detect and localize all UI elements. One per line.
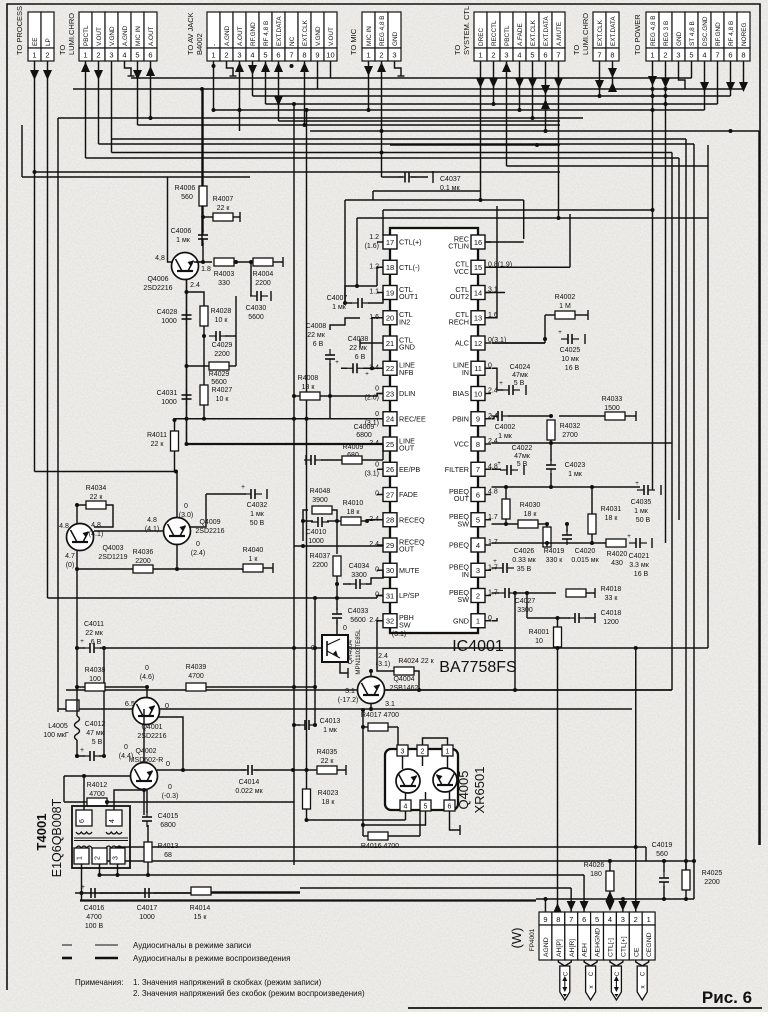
svg-text:R4010: R4010 [343, 500, 364, 507]
svg-text:2200: 2200 [704, 879, 720, 886]
svg-text:100: 100 [89, 676, 101, 683]
svg-text:4: 4 [122, 51, 126, 60]
svg-text:AH[R]: AH[R] [569, 939, 576, 957]
svg-text:TO POWER: TO POWER [633, 14, 642, 55]
svg-text:Рис. 6: Рис. 6 [702, 988, 752, 1007]
svg-text:430: 430 [611, 560, 623, 567]
svg-text:22 к: 22 к [151, 441, 165, 448]
svg-text:REG 4,8 B: REG 4,8 B [650, 15, 657, 46]
svg-text:CEGND: CEGND [646, 932, 653, 957]
svg-text:8: 8 [610, 51, 614, 60]
svg-text:4.8: 4.8 [147, 517, 157, 524]
svg-text:C4008: C4008 [306, 323, 327, 330]
svg-text:OUT: OUT [399, 444, 415, 453]
svg-text:R4026: R4026 [584, 862, 605, 869]
svg-text:0: 0 [184, 503, 188, 510]
svg-text:4700: 4700 [89, 791, 105, 798]
svg-text:4: 4 [250, 51, 254, 60]
svg-text:OUT1: OUT1 [399, 292, 418, 301]
svg-text:PBEQ: PBEQ [449, 541, 469, 550]
svg-text:0: 0 [165, 701, 169, 710]
svg-text:47 мк: 47 мк [86, 730, 105, 737]
svg-text:1: 1 [478, 51, 482, 60]
svg-text:RECEQ: RECEQ [399, 515, 425, 524]
svg-text:A.MUTE: A.MUTE [556, 22, 563, 46]
svg-text:2200: 2200 [255, 280, 271, 287]
svg-text:3300: 3300 [351, 572, 367, 579]
svg-text:2: 2 [634, 915, 638, 924]
svg-text:C4010: C4010 [306, 529, 327, 536]
svg-text:(3.1): (3.1) [365, 470, 379, 477]
svg-text:DLIN: DLIN [399, 389, 415, 398]
svg-text:EXT.DATA: EXT.DATA [276, 16, 283, 46]
svg-text:7: 7 [715, 51, 719, 60]
svg-text:0: 0 [145, 665, 149, 672]
svg-text:31: 31 [386, 591, 394, 600]
svg-text:0: 0 [375, 386, 379, 393]
svg-text:330: 330 [218, 280, 230, 287]
svg-text:R4029: R4029 [209, 371, 230, 378]
svg-text:23: 23 [386, 389, 394, 398]
svg-text:MIC IN: MIC IN [366, 26, 373, 46]
svg-text:100 мкГ: 100 мкГ [43, 732, 68, 739]
svg-text:C4030: C4030 [246, 305, 267, 312]
svg-text:A.GND: A.GND [224, 25, 231, 46]
svg-text:T4001: T4001 [34, 814, 49, 851]
svg-text:1000: 1000 [308, 538, 324, 545]
svg-text:Аудиосигналы в режиме воспроиз: Аудиосигналы в режиме воспроизведения [133, 954, 290, 963]
svg-text:1 мк: 1 мк [176, 237, 191, 244]
svg-text:4: 4 [404, 804, 408, 811]
svg-text:RECH: RECH [449, 317, 469, 326]
svg-text:+: + [365, 370, 369, 377]
svg-text:560: 560 [181, 194, 193, 201]
svg-text:0.1 мк: 0.1 мк [440, 185, 460, 192]
svg-text:(4.1): (4.1) [145, 526, 159, 533]
svg-text:24: 24 [386, 415, 394, 424]
svg-text:CTL[+]: CTL[+] [620, 936, 627, 957]
svg-text:1: 1 [650, 51, 654, 60]
svg-text:9: 9 [315, 51, 319, 60]
svg-text:6800: 6800 [160, 822, 176, 829]
svg-text:5 B: 5 B [517, 461, 528, 468]
svg-text:8: 8 [302, 51, 306, 60]
svg-text:TO AV JACK: TO AV JACK [186, 12, 195, 55]
svg-text:XR6501: XR6501 [472, 767, 487, 814]
svg-text:Q4002: Q4002 [135, 748, 156, 755]
svg-text:(W): (W) [509, 928, 524, 949]
svg-text:2: 2 [491, 51, 495, 60]
svg-text:1. Значения напряжений в скобк: 1. Значения напряжений в скобках (режим … [133, 978, 322, 987]
svg-text:REC/EE: REC/EE [399, 414, 426, 423]
svg-text:R4013: R4013 [158, 843, 179, 850]
svg-text:TO: TO [572, 45, 581, 55]
svg-text:+: + [241, 484, 245, 491]
svg-text:R4034: R4034 [86, 485, 107, 492]
svg-text:8: 8 [556, 915, 560, 924]
svg-text:20: 20 [386, 314, 394, 323]
svg-text:22 мк: 22 мк [307, 332, 326, 339]
svg-text:GND: GND [676, 31, 683, 46]
svg-text:3: 3 [676, 51, 680, 60]
svg-text:SW: SW [399, 620, 411, 629]
svg-text:C4025: C4025 [560, 347, 581, 354]
svg-text:EXT.DATA: EXT.DATA [610, 16, 617, 46]
svg-text:LP/SP: LP/SP [399, 591, 420, 600]
svg-text:19: 19 [386, 288, 394, 297]
svg-text:R4003: R4003 [214, 271, 235, 278]
svg-text:5 B: 5 B [92, 739, 103, 746]
svg-text:R4040: R4040 [243, 547, 264, 554]
svg-text:C4026: C4026 [514, 548, 535, 555]
svg-text:R4002: R4002 [555, 294, 576, 301]
svg-text:C4020: C4020 [575, 548, 596, 555]
svg-text:CTL[-]: CTL[-] [607, 938, 614, 957]
svg-text:C4011: C4011 [84, 621, 104, 628]
svg-text:1.8: 1.8 [201, 266, 211, 273]
svg-text:2SD2216: 2SD2216 [195, 528, 224, 535]
svg-text:R4001: R4001 [529, 629, 550, 636]
svg-text:+: + [80, 747, 84, 754]
svg-text:R4014: R4014 [190, 905, 211, 912]
svg-text:22 мк: 22 мк [85, 630, 104, 637]
svg-text:EXT.DATA: EXT.DATA [543, 16, 550, 46]
svg-text:EXT.CLK: EXT.CLK [597, 19, 604, 46]
svg-text:2SD2216: 2SD2216 [143, 285, 172, 292]
svg-text:+: + [558, 329, 562, 336]
svg-text:PBIN: PBIN [452, 414, 469, 423]
svg-text:CTLIN: CTLIN [448, 242, 469, 251]
svg-text:4700: 4700 [188, 673, 204, 680]
svg-text:3: 3 [476, 566, 480, 575]
svg-text:5: 5 [476, 516, 480, 525]
svg-text:(3.1): (3.1) [376, 661, 390, 668]
svg-text:0: 0 [166, 759, 170, 768]
svg-text:22 к: 22 к [217, 205, 231, 212]
svg-text:VCC: VCC [454, 440, 469, 449]
svg-text:9: 9 [476, 415, 480, 424]
svg-text:DREC: DREC [478, 28, 485, 46]
svg-text:R4017 4700: R4017 4700 [361, 712, 399, 719]
svg-text:+: + [497, 460, 501, 467]
svg-text:RF 4,8 B: RF 4,8 B [263, 21, 270, 46]
svg-text:13: 13 [474, 314, 482, 323]
svg-text:R4023: R4023 [318, 790, 339, 797]
svg-text:OUT: OUT [399, 545, 415, 554]
svg-text:(4.4): (4.4) [119, 753, 133, 760]
svg-text:C4033: C4033 [348, 608, 369, 615]
svg-text:FP4001: FP4001 [529, 928, 536, 951]
svg-text:A.OUT: A.OUT [148, 26, 155, 46]
svg-text:Q4009: Q4009 [199, 519, 220, 526]
svg-text:5600: 5600 [248, 314, 264, 321]
svg-text:22 к: 22 к [321, 758, 335, 765]
svg-text:C4016: C4016 [84, 905, 105, 912]
svg-text:2. Значения напряжений без ско: 2. Значения напряжений без скобок (режим… [133, 989, 365, 998]
svg-text:22 к: 22 к [90, 494, 104, 501]
svg-text:180: 180 [590, 871, 602, 878]
svg-text:R4006: R4006 [175, 185, 196, 192]
svg-text:SW: SW [457, 519, 469, 528]
svg-text:18 к: 18 к [524, 511, 538, 518]
svg-text:C: C [641, 971, 647, 976]
svg-text:27: 27 [386, 490, 394, 499]
svg-text:4: 4 [476, 541, 480, 550]
svg-text:RF 4,8 B: RF 4,8 B [728, 21, 735, 46]
svg-text:LP: LP [45, 38, 52, 46]
svg-text:12: 12 [474, 339, 482, 348]
svg-text:4.8: 4.8 [59, 523, 69, 530]
svg-text:A.FADE: A.FADE [517, 23, 524, 46]
svg-text:RECCTL: RECCTL [491, 20, 498, 46]
svg-text:0: 0 [168, 784, 172, 791]
svg-text:7: 7 [569, 915, 573, 924]
svg-text:IN2: IN2 [399, 317, 410, 326]
svg-text:R4031: R4031 [601, 506, 622, 513]
svg-text:-: - [211, 44, 218, 46]
svg-text:C4014: C4014 [239, 779, 260, 786]
svg-text:MIC IN: MIC IN [135, 26, 142, 46]
svg-text:5 B: 5 B [514, 380, 525, 387]
svg-text:C4012: C4012 [85, 721, 106, 728]
svg-text:5600: 5600 [211, 379, 227, 386]
svg-text:3: 3 [109, 51, 113, 60]
svg-text:C: C [589, 971, 595, 976]
svg-text:18 к: 18 к [322, 799, 336, 806]
svg-text:25: 25 [386, 440, 394, 449]
svg-text:2: 2 [421, 749, 425, 756]
svg-text:R4048: R4048 [310, 488, 331, 495]
svg-text:L4005: L4005 [48, 723, 68, 730]
svg-text:6 B: 6 B [313, 341, 324, 348]
svg-text:C4027: C4027 [515, 598, 536, 605]
svg-text:1000: 1000 [161, 318, 177, 325]
svg-text:C4015: C4015 [158, 813, 179, 820]
svg-text:C: C [615, 971, 621, 976]
svg-text:QR4004: QR4004 [347, 640, 354, 665]
svg-text:C4009: C4009 [354, 424, 375, 431]
svg-text:R4011: R4011 [147, 432, 167, 439]
svg-text:(1.6): (1.6) [365, 243, 379, 250]
svg-text:REG 3 B: REG 3 B [663, 21, 670, 46]
svg-text:3: 3 [392, 51, 396, 60]
svg-text:AEHGND: AEHGND [595, 928, 602, 957]
svg-text:10: 10 [535, 638, 543, 645]
svg-text:Q4003: Q4003 [102, 545, 123, 552]
svg-text:2: 2 [45, 51, 49, 60]
svg-text:C4037: C4037 [440, 176, 461, 183]
svg-text:5: 5 [595, 915, 599, 924]
svg-text:R4025: R4025 [702, 870, 723, 877]
svg-text:22: 22 [386, 364, 394, 373]
svg-text:(3.1): (3.1) [392, 631, 406, 638]
svg-text:2: 2 [96, 51, 100, 60]
svg-text:C4022: C4022 [512, 445, 533, 452]
svg-text:E1Q6QB008T: E1Q6QB008T [50, 798, 64, 877]
svg-text:3: 3 [504, 51, 508, 60]
svg-text:C: C [563, 971, 569, 976]
svg-text:+: + [627, 533, 631, 540]
svg-text:IC4001: IC4001 [452, 638, 504, 655]
svg-text:2SD2216: 2SD2216 [137, 733, 166, 740]
svg-text:IN: IN [462, 570, 469, 579]
svg-text:4: 4 [608, 915, 612, 924]
svg-text:Аудиосигналы в режиме записи: Аудиосигналы в режиме записи [133, 941, 251, 950]
svg-text:1: 1 [446, 749, 450, 756]
svg-text:+: + [335, 359, 339, 366]
svg-text:0.015 мк: 0.015 мк [571, 557, 599, 564]
svg-text:1.2: 1.2 [369, 234, 379, 241]
svg-text:Q4005: Q4005 [456, 770, 471, 809]
svg-text:REG 4,8 B: REG 4,8 B [379, 15, 386, 46]
svg-text:4.7: 4.7 [65, 553, 75, 560]
svg-text:R4007: R4007 [213, 196, 234, 203]
svg-text:3: 3 [621, 915, 625, 924]
svg-text:7: 7 [556, 51, 560, 60]
svg-text:6: 6 [79, 819, 86, 823]
svg-text:35 B: 35 B [517, 566, 532, 573]
svg-text:1: 1 [211, 51, 215, 60]
svg-text:C4019: C4019 [652, 842, 673, 849]
svg-text:18 к: 18 к [302, 384, 316, 391]
svg-text:100 B: 100 B [85, 923, 104, 930]
svg-text:EXT.CLK: EXT.CLK [302, 19, 309, 46]
svg-text:5: 5 [689, 51, 693, 60]
svg-text:3: 3 [237, 51, 241, 60]
svg-text:EE: EE [32, 37, 39, 46]
svg-text:2: 2 [224, 51, 228, 60]
svg-text:2SD1219: 2SD1219 [98, 554, 127, 561]
svg-text:6: 6 [148, 51, 152, 60]
svg-text:V.OUT: V.OUT [96, 27, 103, 46]
svg-text:(3.0): (3.0) [179, 512, 193, 519]
svg-text:+: + [493, 558, 497, 565]
svg-text:2200: 2200 [312, 562, 328, 569]
svg-text:TO: TO [58, 45, 67, 55]
svg-text:10 к: 10 к [216, 396, 230, 403]
svg-text:5: 5 [530, 51, 534, 60]
svg-text:1: 1 [476, 617, 480, 626]
svg-text:IN: IN [462, 368, 469, 377]
svg-text:1: 1 [647, 915, 651, 924]
svg-text:1: 1 [77, 856, 84, 860]
svg-text:R4020: R4020 [607, 551, 628, 558]
svg-text:R4035: R4035 [317, 749, 338, 756]
svg-text:A.GND: A.GND [122, 25, 129, 46]
svg-text:6: 6 [582, 915, 586, 924]
svg-text:10: 10 [474, 389, 482, 398]
svg-text:6.5: 6.5 [125, 699, 135, 708]
svg-text:C4017: C4017 [137, 905, 158, 912]
svg-text:(2.4): (2.4) [191, 550, 205, 557]
svg-text:PBCTL: PBCTL [83, 25, 90, 46]
svg-text:FILTER: FILTER [445, 465, 469, 474]
svg-text:22 мк: 22 мк [349, 345, 368, 352]
svg-text:4: 4 [702, 51, 706, 60]
svg-text:16 B: 16 B [634, 571, 649, 578]
svg-text:17: 17 [386, 238, 394, 247]
svg-text:11: 11 [474, 364, 482, 373]
svg-text:ST 4,8 B: ST 4,8 B [689, 21, 696, 46]
svg-text:1 M: 1 M [559, 303, 571, 310]
svg-text:3: 3 [401, 749, 405, 756]
svg-text:7: 7 [289, 51, 293, 60]
svg-text:EE/PB: EE/PB [399, 465, 420, 474]
svg-text:C4032: C4032 [247, 502, 268, 509]
svg-text:R4032: R4032 [560, 423, 581, 430]
svg-text:C4002: C4002 [495, 424, 516, 431]
svg-text:6: 6 [476, 490, 480, 499]
svg-text:50 B: 50 B [250, 520, 265, 527]
svg-text:18 к: 18 к [605, 515, 619, 522]
svg-text:0: 0 [375, 411, 379, 418]
svg-text:15: 15 [474, 263, 482, 272]
svg-text:1 мк: 1 мк [568, 471, 583, 478]
svg-text:18: 18 [386, 263, 394, 272]
svg-text:0.022 мк: 0.022 мк [235, 788, 263, 795]
svg-text:8: 8 [741, 51, 745, 60]
svg-text:C4006: C4006 [171, 228, 192, 235]
svg-text:2200: 2200 [135, 558, 151, 565]
svg-text:50 B: 50 B [636, 517, 651, 524]
svg-text:330 к: 330 к [546, 557, 564, 564]
svg-text:C4013: C4013 [320, 718, 341, 725]
svg-text:6: 6 [543, 51, 547, 60]
svg-text:2: 2 [663, 51, 667, 60]
svg-text:CE: CE [633, 947, 640, 957]
svg-text:6: 6 [728, 51, 732, 60]
svg-text:NOREG: NOREG [741, 23, 748, 46]
svg-text:33 к: 33 к [605, 595, 619, 602]
svg-text:30: 30 [386, 566, 394, 575]
svg-text:1500: 1500 [604, 405, 620, 412]
svg-text:5: 5 [424, 804, 428, 811]
svg-text:2700: 2700 [562, 432, 578, 439]
svg-text:0: 0 [343, 625, 347, 632]
svg-text:29: 29 [386, 541, 394, 550]
svg-text:R4033: R4033 [602, 396, 623, 403]
svg-text:26: 26 [386, 465, 394, 474]
svg-text:5: 5 [135, 51, 139, 60]
svg-text:0.33 мк: 0.33 мк [512, 557, 536, 564]
svg-text:+: + [80, 638, 84, 645]
svg-text:3: 3 [113, 856, 120, 860]
svg-text:C4028: C4028 [157, 309, 178, 316]
svg-text:(-17.2): (-17.2) [338, 697, 359, 704]
svg-text:R4009: R4009 [343, 444, 364, 451]
svg-text:OUT: OUT [454, 494, 470, 503]
svg-text:R4024 22 к: R4024 22 к [398, 658, 434, 665]
svg-text:RF.GND: RF.GND [715, 22, 722, 46]
svg-text:6: 6 [448, 804, 452, 811]
svg-text:MUTE: MUTE [399, 566, 420, 575]
svg-text:AGND: AGND [543, 937, 550, 957]
svg-text:GND: GND [392, 31, 399, 46]
svg-text:LUMI.CHRO: LUMI.CHRO [67, 13, 76, 55]
svg-text:560: 560 [656, 851, 668, 858]
svg-text:CTL(+): CTL(+) [399, 238, 422, 247]
svg-text:14: 14 [474, 288, 482, 297]
svg-text:C4024: C4024 [510, 364, 531, 371]
svg-text:3300: 3300 [517, 607, 533, 614]
svg-text:21: 21 [386, 339, 394, 348]
svg-text:SW: SW [457, 595, 469, 604]
svg-text:BA7758FS: BA7758FS [439, 659, 516, 676]
svg-text:TO MIC: TO MIC [349, 28, 358, 55]
svg-text:47мк: 47мк [514, 453, 531, 460]
svg-text:GND: GND [453, 616, 469, 625]
svg-text:15 к: 15 к [194, 914, 208, 921]
